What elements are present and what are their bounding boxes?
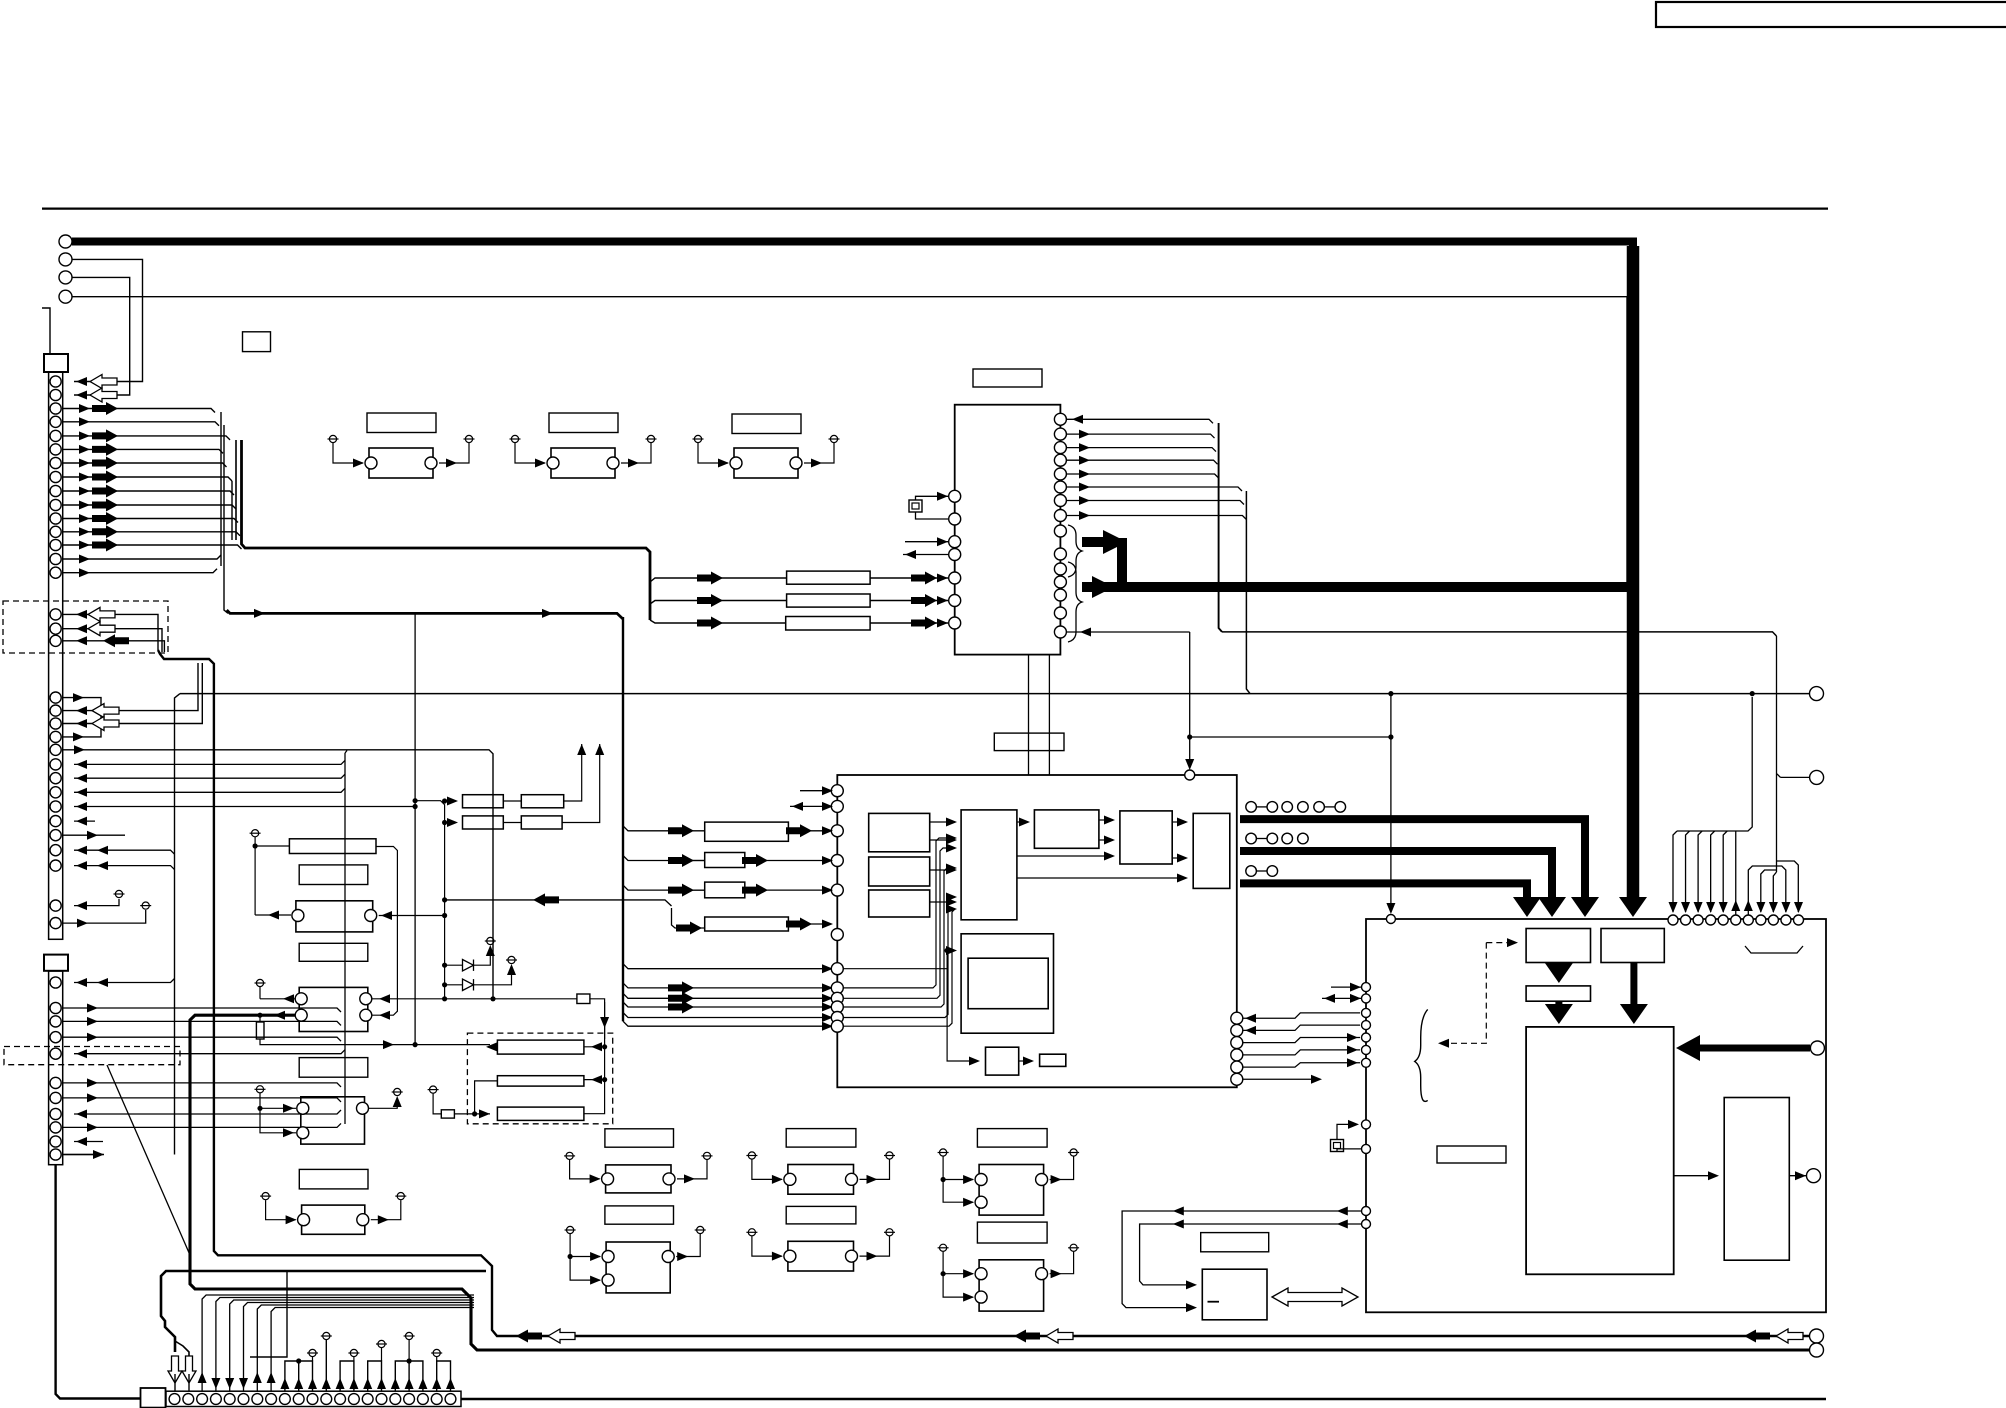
DSP-to-U1 row 1 with series box	[704, 577, 787, 579]
brace for U1 bus pins pair	[1068, 525, 1082, 577]
mid-left filter F4 box (dual)	[299, 987, 368, 1031]
heavy harness vertical x=622.3 with fan-out branches to DSP inputs	[622, 617, 624, 1021]
DSP inner block A2	[869, 857, 930, 886]
feedback top resistor wide box	[289, 839, 376, 854]
terminal circle right end of bottom line 2	[1810, 1343, 1824, 1357]
arrow pair on bottom line 1 (middle)	[1014, 1330, 1040, 1343]
small box near top left	[243, 332, 271, 352]
row 749 wire east to riser x=493	[62, 750, 493, 999]
terminal circle right end of bottom line 1	[1810, 1329, 1824, 1343]
open arrow on T3 wire	[90, 388, 117, 402]
connector CN2 body (lower strip)	[49, 971, 63, 1165]
mid-left filter F3 box	[296, 901, 373, 932]
F4 ground	[255, 979, 266, 986]
interface label box	[1201, 1233, 1269, 1252]
DSP label box	[994, 733, 1064, 751]
dashed highlight box around CN2 pin	[4, 1047, 180, 1065]
left vertical wire from CN2 to bottom border	[56, 1165, 140, 1399]
DSP inner big block B	[961, 810, 1017, 920]
thick output bus 1 from DSP to right block	[1240, 819, 1585, 825]
DSP inner block A3	[869, 890, 930, 917]
delay line filter 1	[369, 448, 433, 478]
terminal circle output	[1807, 1169, 1821, 1183]
feed wires into resistor pairs	[445, 800, 456, 802]
bottom connector CN3 body	[166, 1391, 461, 1406]
wire into F3 right circle from divider riser	[379, 915, 445, 917]
right block left pin circles	[1362, 983, 1371, 992]
series resistor row into DSP pin 6	[672, 908, 705, 928]
dashed control path	[1486, 942, 1510, 944]
thick output bus 2 from DSP to right block	[1240, 851, 1552, 856]
vertical from U1 pin15 wire down to DSP top pin	[1189, 632, 1191, 768]
resistor pair row 1	[463, 795, 504, 808]
brace for U1 bus pins quad	[1068, 562, 1082, 642]
U1 output wires bundle going right then down	[1066, 419, 1213, 423]
CN1 rows 764-792 output wires merging to riser x=349	[74, 760, 345, 764]
filter column2 motif single B	[788, 1241, 854, 1271]
fan branches to DSP lower input rows	[623, 964, 831, 969]
fan A pin6 riser with up arrow	[1735, 831, 1737, 915]
filter label box mid-left 3	[299, 1058, 368, 1078]
long signal line y=693 across page to right terminal	[180, 693, 1810, 695]
harness vertical x=174.5 from line-693 corner down CN rows	[175, 694, 181, 1155]
interface block bottom middle	[1202, 1269, 1267, 1320]
U1 pin wire out	[903, 554, 948, 556]
filter column3 motif dual B	[979, 1260, 1044, 1311]
wire CPU to tall block	[1674, 1175, 1717, 1177]
right block left pin stubs	[1331, 986, 1361, 988]
F3 left wire	[255, 914, 291, 916]
ground T-bar group B pins 13-14	[340, 1361, 354, 1391]
DSP inner block C	[1034, 810, 1099, 848]
bottom border line	[461, 1398, 1826, 1400]
bracket wire joining CN1 rows 697/737	[62, 698, 101, 737]
chain of test point circles row 1	[1246, 802, 1257, 813]
CPU block inside right block	[1526, 1027, 1674, 1274]
EQ row1 right wire	[584, 1046, 605, 1048]
diode D2	[442, 982, 447, 987]
connector CN2 header box	[44, 955, 68, 971]
DSP inner block D	[1120, 811, 1172, 864]
dashed highlight box around CN1 pins group 2	[3, 601, 168, 653]
label box inside right block	[1437, 1146, 1506, 1163]
feedback loop outer from right block	[1122, 1211, 1361, 1308]
ground T-bar group C pins 15-16	[368, 1361, 382, 1391]
DSP inner block G	[986, 1047, 1019, 1075]
horizontal wire y=899.9 with thick left arrow	[445, 900, 672, 906]
CN1 row 835 bidirectional stub	[62, 834, 125, 836]
diagonal annotation leader line	[107, 1065, 190, 1255]
heavy bus A stepped path from dashed rows to bottom line 1	[158, 650, 1810, 1336]
dashed EQ group box	[467, 1033, 612, 1124]
fan A wires into right block pins 1-5	[1677, 697, 1752, 831]
thick bus 1 from U1 pair pins	[1082, 537, 1103, 547]
connector CN1 pins (middle group)	[50, 692, 61, 703]
resistor pair outputs up arrows to line 693	[564, 744, 582, 801]
arrows on dashed-box rows	[88, 607, 115, 621]
series resistor row into DSP pin 3	[705, 822, 789, 841]
IC U1 label box	[973, 369, 1042, 387]
main vertical bus descending to DSP block, arrowhead at bottom	[1627, 246, 1640, 899]
DSP inner wiring A3-B	[930, 901, 955, 903]
terminal circle T3	[59, 271, 72, 284]
open arrow on T2 wire	[90, 375, 117, 389]
big bracket symbol	[1415, 1009, 1428, 1101]
terminal circle stub off riser	[1781, 776, 1810, 778]
wire CN1 dashed rows to lower heavy bus A	[62, 614, 158, 650]
chain of test point circles row 2	[1246, 833, 1257, 844]
U1 pin wire in	[905, 541, 948, 543]
delay line label box 3	[732, 414, 801, 434]
main heavy bus from T1 along top, elbow down at right	[72, 242, 1633, 251]
filter label box mid-left 1	[299, 865, 368, 885]
bottom-left filter F6	[302, 1205, 365, 1234]
bus stub vertical x=444.6	[415, 801, 445, 999]
merged bus vertical x=1218.6 to line 632	[1219, 423, 1222, 632]
DSP inner block H	[1040, 1054, 1066, 1066]
DSP inner wiring B-E	[1017, 877, 1186, 879]
filter column3 mid label	[977, 1222, 1047, 1243]
CN1 row 821 stub	[74, 820, 95, 822]
connector CN1 body (upper strip)	[49, 372, 63, 939]
riser wire left of bottom connector groups	[250, 1272, 287, 1357]
merged bus vertical x=1246.4 to line 693	[1246, 491, 1250, 694]
terminal circle T4	[59, 290, 72, 303]
wires DSP right pins to right block left pins	[1243, 1013, 1360, 1018]
F4 right wires	[372, 998, 577, 1000]
wire into F	[945, 948, 950, 953]
terminal circle right end of line 693	[1810, 687, 1824, 701]
connector CN1 pins (dashed-box group)	[50, 609, 61, 620]
CN1 row 806 long wire east	[74, 806, 415, 808]
filter column1 mid label	[605, 1206, 674, 1224]
riser from line 693 down to DSP right block top pin	[1390, 694, 1392, 912]
thick input arrow into CPU right side	[1700, 1045, 1810, 1052]
EQ right bus vertical	[584, 1002, 605, 1114]
DSP inner wiring A1-B	[930, 821, 955, 823]
fan from harness bus into three DSP input rows	[650, 578, 704, 582]
long wire from T4 to right side, down to audio bus junction	[72, 297, 1627, 583]
heavy harness bus vertical from CN1 rows down to y=548 elbow	[242, 440, 651, 620]
DSP inner wiring B-D	[1017, 855, 1113, 857]
DSP inner wiring A2-B	[930, 869, 955, 871]
resistor pair row 2	[463, 816, 504, 829]
wire harness: CN1 rows 3-13 to heavy bus with block arrows	[62, 409, 215, 413]
DSP top-right pin circle	[1185, 770, 1195, 780]
series resistor row into DSP pin 5	[680, 889, 705, 891]
connector CN1 header box	[44, 354, 68, 372]
filter label box mid-left 2	[299, 943, 368, 961]
EQ resistor row 2	[497, 1076, 584, 1086]
mid-left filter F5 (dual input)	[301, 1097, 365, 1144]
bus bundle vertical A (thin rows) down to heavy wire y=613	[220, 412, 222, 566]
connector CN1 pins (upper group circles)	[50, 376, 61, 387]
DSP inner block A1	[869, 813, 930, 851]
DSP row 968 wire internal	[843, 968, 947, 970]
ground for feedback loop	[250, 830, 261, 837]
ground T-bar group D pins 17-19	[395, 1361, 423, 1391]
delay line label box 1	[367, 413, 436, 433]
EQ resistor row 1	[497, 1040, 584, 1054]
arrow pair on bottom line 1 (right)	[1744, 1330, 1770, 1343]
connector CN2 pins	[50, 977, 61, 988]
heavy signal wire y=613 from harness elbow to DSP vertical	[227, 610, 623, 619]
wire y=737 from DSP riser to block riser	[1190, 736, 1391, 738]
signal line y=632 east to right block riser	[1222, 632, 1777, 636]
vertical resistor R on stem x=260	[256, 1022, 264, 1039]
EQ resistor row 3	[497, 1107, 584, 1120]
thick arrow box3 to cpu	[1555, 1001, 1562, 1006]
tall block right of CPU	[1724, 1098, 1789, 1261]
filter column2 mid label	[786, 1206, 856, 1224]
CN1 rows 850/865 wires merging to riser x=174.5	[74, 850, 175, 854]
fan B riser from line 632	[1776, 636, 1778, 872]
bottom connector CN3 pin circles	[169, 1394, 180, 1405]
crystal X1	[909, 500, 922, 512]
stub arrow from CN2 last pin	[62, 1154, 104, 1156]
CN1 row 905 ground wire	[74, 899, 119, 906]
bottom connector CN3 end cap square	[141, 1388, 166, 1408]
bottom-left filter label	[299, 1169, 368, 1189]
title box top right	[1656, 2, 2006, 27]
terminal circle T1 (main bus)	[59, 235, 72, 248]
U1 bottom pin feedback wire	[1066, 631, 1189, 633]
delay line filter 2	[551, 448, 615, 478]
DSP-to-U1 row 3 with series box	[704, 622, 786, 624]
wire F to G	[947, 951, 978, 1062]
diode D1	[442, 963, 447, 968]
central DSP block body	[837, 775, 1237, 1087]
wire tall block to terminal	[1789, 1175, 1806, 1177]
thin risers from bottom connector pins 3-8	[202, 1295, 474, 1391]
terminal circle T2	[59, 253, 72, 266]
crystal X2 wires	[1337, 1124, 1357, 1139]
filter column1 top label	[605, 1129, 674, 1147]
U1 bottom verticals to DSP top	[1028, 655, 1030, 775]
series resistor row into DSP pin 4	[680, 860, 705, 862]
wire from T2 down to connector row 1	[72, 259, 143, 381]
right block top pin circles	[1668, 915, 1678, 925]
wire from T3 down to connector row 2	[72, 277, 130, 395]
thick output bus 3 from DSP to right block	[1240, 883, 1527, 888]
stub wire above CN1 header	[42, 308, 50, 354]
DSP inner block F	[961, 934, 1053, 1033]
DSP inner wiring D-E	[1172, 821, 1186, 823]
IC U1 left pins	[949, 490, 961, 502]
filter column3 motif dual A	[979, 1165, 1044, 1216]
fan B wires into right block pins 7-11	[1748, 866, 1776, 915]
wire G to H	[1019, 1060, 1032, 1062]
DSP-to-U1 row 2 with series box	[704, 600, 787, 602]
IC U1 right pins	[1054, 413, 1066, 425]
EQ row3 left wires with ground and resistor	[428, 1086, 439, 1093]
DSP left pin stubs	[800, 790, 831, 792]
delay line filter 3	[734, 448, 798, 478]
IC U1 body	[955, 405, 1061, 655]
DSP inner wiring B-C	[1017, 821, 1028, 823]
DSP inner wiring C-D	[1099, 819, 1113, 821]
right block inner box 1	[1526, 929, 1590, 963]
DSP inner block E	[1193, 813, 1230, 888]
arrow pair on bottom line 1 (left)	[516, 1330, 542, 1343]
series resistor small on wire 998	[577, 994, 590, 1004]
thick bus 2 from U1 quad pins to main vertical	[1082, 582, 1627, 592]
right block inner box 2	[1601, 929, 1664, 963]
thick arrow box2 to cpu	[1630, 963, 1637, 1007]
chain of test point circles row 3	[1246, 866, 1257, 877]
crystal X2	[1331, 1140, 1344, 1152]
filter column2 top label	[786, 1129, 856, 1148]
CN2 rows wiring to riser x=345	[74, 1050, 345, 1054]
heavy wire C to bottom connector pins 1-2 with open arrows	[161, 1271, 486, 1352]
right block top edge pin circle at riser 1390	[1386, 915, 1395, 924]
tall ground stem over pin 12	[325, 1340, 327, 1391]
terminal circle for thick input	[1810, 1041, 1824, 1055]
DSP left pin circles	[831, 785, 843, 797]
CN1 row 923 ground wire	[62, 910, 146, 923]
feedback loop wires	[254, 837, 256, 915]
filter column1 motif single	[606, 1165, 671, 1193]
DSP internal risers from input pins to block B	[843, 838, 955, 988]
EQ row2 wires	[475, 1081, 498, 1114]
delay line label box 2	[549, 413, 618, 433]
crystal X1 wires to U1	[916, 496, 949, 500]
right block inner box 3	[1526, 986, 1590, 1001]
filter column2 motif single A	[788, 1165, 854, 1195]
filter column1 motif dual	[606, 1242, 670, 1293]
ground T-bars over bottom connector pins	[285, 1361, 313, 1391]
feedback loop inner from right block	[1140, 1224, 1362, 1285]
ground T-bar group E pins 20-21	[437, 1361, 451, 1391]
F4 left wires	[260, 998, 295, 1000]
thin riser x=415 from heavy wire to wire 1044	[414, 613, 416, 1044]
double headed open arrow interface to right block	[1272, 1288, 1358, 1306]
DSP right-lower pin circles	[1231, 1012, 1243, 1024]
underbrace below right block pins 8-11	[1745, 946, 1803, 953]
thick arrow box1 to box3	[1555, 963, 1562, 966]
horizontal rule at top	[42, 208, 1828, 210]
right block body (system controller)	[1366, 919, 1826, 1312]
DSP inner block F2	[968, 958, 1048, 1009]
rows 710/723 wires going up right with open arrows	[62, 663, 198, 711]
riser x=345 collecting CN2 rows	[344, 753, 346, 1124]
heavy wire B from filter F4 output down left side to bottom line 2	[190, 1015, 1810, 1350]
CN2 rows 1141/1154 stubs	[74, 1141, 103, 1143]
filter column3 top label	[977, 1129, 1047, 1148]
